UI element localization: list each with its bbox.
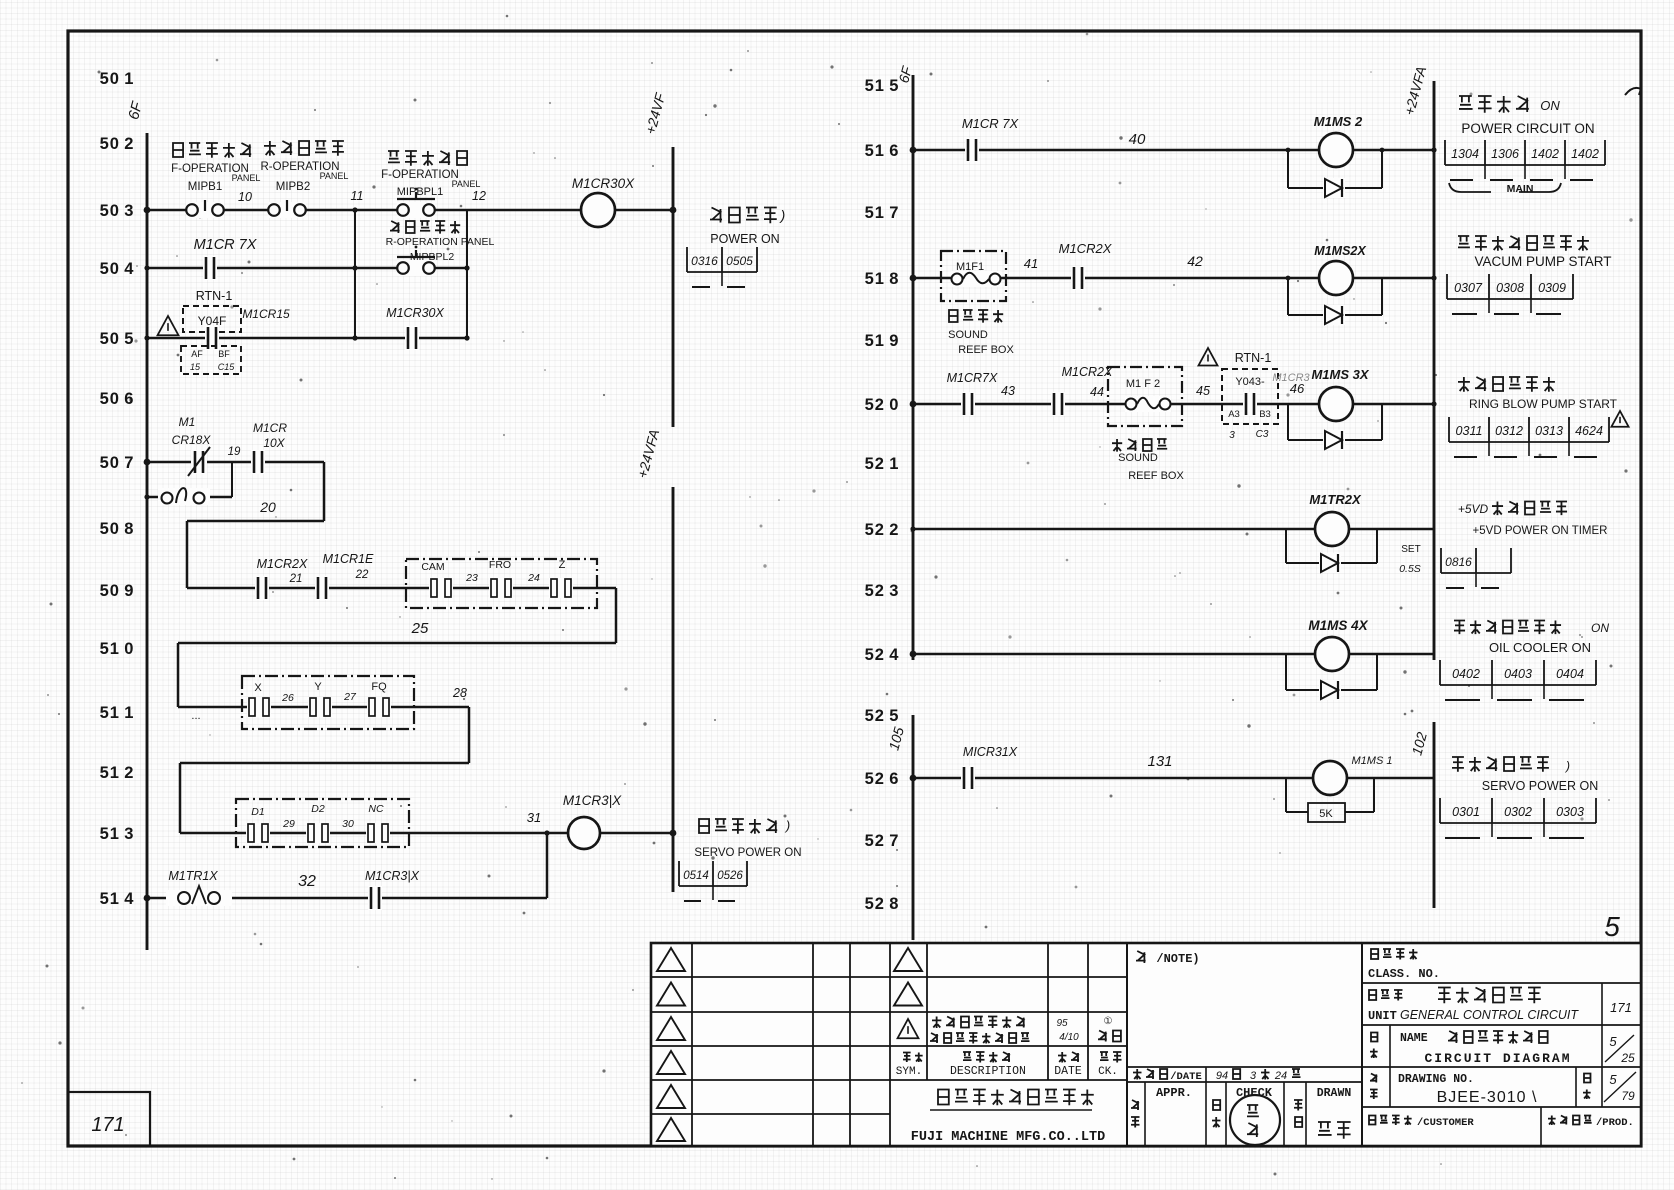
diode branch 520 <box>1288 404 1382 440</box>
svg-text:MIPB1: MIPB1 <box>188 181 223 193</box>
contact FRO <box>489 578 513 598</box>
svg-text:51 8: 51 8 <box>865 270 900 288</box>
right bus +24VF upper segment <box>672 147 675 427</box>
note kanji power-circuit ON <box>1459 96 1529 113</box>
label DRAWN <box>1294 1100 1303 1111</box>
svg-text:21: 21 <box>289 573 303 585</box>
wire coil to bus 503 <box>615 209 673 212</box>
svg-text:105: 105 <box>885 725 907 752</box>
svg-text:M1CR15: M1CR15 <box>242 307 290 321</box>
svg-text:0312: 0312 <box>1495 424 1523 438</box>
right-half left bus upper <box>912 75 915 660</box>
coil MICR31X <box>568 817 600 849</box>
contact NC-labelled <box>366 823 390 843</box>
svg-text:POWER CIRCUIT ON: POWER CIRCUIT ON <box>1461 121 1594 136</box>
svg-text:M1CR2X: M1CR2X <box>1059 241 1113 256</box>
wire down to 513 <box>179 763 182 833</box>
wire 526 coil-bus <box>1347 777 1434 780</box>
svg-text:0313: 0313 <box>1535 424 1563 438</box>
svg-text:20: 20 <box>259 499 276 515</box>
node 505 bus <box>144 335 149 340</box>
node 516 branch R <box>1380 148 1385 153</box>
svg-text:M1CR2X: M1CR2X <box>1062 365 1113 379</box>
svg-text:50 8: 50 8 <box>100 520 135 538</box>
svg-text:51 2: 51 2 <box>100 764 135 782</box>
contact MICR31X 526 <box>961 766 975 790</box>
svg-text:79: 79 <box>1621 1089 1635 1103</box>
wire rung 520 <box>913 403 1319 406</box>
svg-text:0526: 0526 <box>717 870 743 882</box>
svg-text:5: 5 <box>1609 1072 1617 1087</box>
wire rung 505 <box>147 337 467 340</box>
svg-text:171: 171 <box>1610 1000 1632 1015</box>
svg-text:DRAWING NO.: DRAWING NO. <box>1398 1073 1474 1086</box>
label page col <box>1584 1074 1590 1083</box>
svg-text:11: 11 <box>351 189 364 203</box>
svg-text:50 5: 50 5 <box>100 330 135 348</box>
left power bus 6F <box>146 133 149 950</box>
svg-text:M1CR1E: M1CR1E <box>323 552 374 566</box>
io table 0301 0302 0303 <box>1440 798 1596 838</box>
svg-text:1402: 1402 <box>1571 147 1599 161</box>
wire 522 coil-bus <box>1349 528 1434 531</box>
approval row dividers <box>1145 1082 1306 1146</box>
node 520 bus <box>910 401 917 408</box>
contact MICR1E <box>315 576 329 600</box>
diode branch 516 <box>1288 150 1382 188</box>
svg-text:28: 28 <box>452 686 467 700</box>
svg-text:102: 102 <box>1408 730 1430 757</box>
svg-text:SOUND: SOUND <box>948 329 988 341</box>
svg-text:15: 15 <box>190 362 201 372</box>
io table 1304 1306 1402 1402 <box>1445 140 1605 180</box>
svg-text:DESCRIPTION: DESCRIPTION <box>950 1065 1026 1078</box>
svg-text:B3: B3 <box>1259 409 1271 420</box>
svg-text:M1CR: M1CR <box>253 421 287 435</box>
svg-text:DRAWN: DRAWN <box>1317 1087 1352 1100</box>
svg-text:51 7: 51 7 <box>865 204 900 222</box>
right bus +24VFA lower segment <box>672 487 675 892</box>
svg-text:/DATE: /DATE <box>1170 1071 1202 1083</box>
wire rung 509 <box>187 587 616 590</box>
svg-text:+5VD POWER ON TIMER: +5VD POWER ON TIMER <box>1473 525 1608 537</box>
svg-text:0303: 0303 <box>1556 805 1584 819</box>
svg-text:Y04F: Y04F <box>198 314 227 328</box>
title block outline <box>651 943 1641 1146</box>
warning triangle 4624 <box>1611 411 1628 427</box>
svg-text:26: 26 <box>281 692 294 704</box>
wire 520 coil-bus <box>1353 403 1434 406</box>
svg-text:3: 3 <box>1250 1070 1257 1082</box>
svg-text:95: 95 <box>1056 1018 1068 1029</box>
wire rung 507 <box>147 461 324 464</box>
wire 518 coil-bus <box>1353 277 1434 280</box>
svg-text:RING BLOW PUMP START: RING BLOW PUMP START <box>1469 397 1618 411</box>
contact Z <box>549 578 573 598</box>
svg-text:25: 25 <box>411 620 429 637</box>
node 513 x547 <box>544 830 549 835</box>
svg-text:0302: 0302 <box>1504 805 1532 819</box>
svg-text:52 8: 52 8 <box>865 895 900 913</box>
svg-text:M1CR 7X: M1CR 7X <box>194 237 258 253</box>
wire 524 coil-bus <box>1349 653 1434 656</box>
diode 516 <box>1323 178 1345 198</box>
svg-text:0311: 0311 <box>1456 424 1483 438</box>
svg-text:0308: 0308 <box>1496 281 1524 295</box>
svg-text:52 7: 52 7 <box>865 832 900 850</box>
wire 507 down x324 <box>323 462 326 521</box>
node 518 right bus <box>1431 275 1436 280</box>
wire 516 coil-bus <box>1353 149 1434 152</box>
svg-text:VACUM PUMP START: VACUM PUMP START <box>1474 254 1611 269</box>
svg-text:+24VFA: +24VFA <box>1401 65 1429 117</box>
svg-text:CIRCUIT DIAGRAM: CIRCUIT DIAGRAM <box>1424 1051 1571 1066</box>
diode branch 522 <box>1286 529 1377 563</box>
svg-text:C3: C3 <box>1256 429 1269 440</box>
svg-text:F-OPERATION: F-OPERATION <box>381 169 459 181</box>
wire rung 513 <box>180 832 568 835</box>
pushbutton MIPBPL1 <box>397 188 435 218</box>
svg-text:Y043-: Y043- <box>1235 376 1265 388</box>
svg-text:0816: 0816 <box>1445 555 1472 569</box>
svg-text:43: 43 <box>1001 384 1015 398</box>
svg-text:50 7: 50 7 <box>100 454 135 472</box>
svg-text:M1MS 2: M1MS 2 <box>1314 114 1363 129</box>
company underline <box>930 1109 1092 1111</box>
label APPR <box>1131 1100 1139 1110</box>
diode 522 <box>1319 553 1341 573</box>
svg-text:/CUSTOMER: /CUSTOMER <box>1417 1117 1474 1129</box>
note kanji servo-power right <box>1452 757 1549 772</box>
svg-text:40: 40 <box>1129 131 1146 148</box>
svg-text:POWER ON: POWER ON <box>710 232 779 246</box>
svg-text:SET: SET <box>1401 544 1420 555</box>
svg-text:0316: 0316 <box>691 254 718 268</box>
right-half right bus upper <box>1433 81 1436 660</box>
check stamp yamamoto <box>1230 1095 1280 1145</box>
note kanji sound-reef-box 518 <box>949 310 1003 323</box>
node 522 bus <box>910 526 915 531</box>
svg-text:BJEE-3010 \: BJEE-3010 \ <box>1437 1089 1538 1106</box>
wire rung 503 <box>147 209 581 212</box>
svg-text:42: 42 <box>1187 253 1203 269</box>
svg-text:GENERAL CONTROL CIRCUIT: GENERAL CONTROL CIRCUIT <box>1400 1008 1579 1022</box>
svg-text:10: 10 <box>238 190 252 204</box>
right-half right bus lower 102 <box>1433 722 1436 908</box>
svg-text:Z: Z <box>559 559 566 571</box>
revision table grid <box>651 943 1127 1146</box>
coil M1MS2X <box>1319 261 1353 295</box>
svg-text:Y: Y <box>314 681 322 693</box>
pushbutton MIPBPL2 <box>397 246 435 276</box>
contact MICR30X 505 <box>405 326 419 350</box>
svg-text:0301: 0301 <box>1452 805 1480 819</box>
dash-dot box CAM FRO Z <box>406 559 597 608</box>
svg-text:): ) <box>1564 759 1570 773</box>
svg-text:MIPB2: MIPB2 <box>276 181 311 193</box>
svg-text:5K: 5K <box>1319 808 1333 820</box>
svg-text:4624: 4624 <box>1575 424 1603 438</box>
wire 20 horizontal <box>187 520 324 523</box>
coil M1MS3X <box>1319 387 1353 421</box>
svg-text:51 1: 51 1 <box>100 704 135 722</box>
svg-text:50 2: 50 2 <box>100 135 135 153</box>
svg-text:1402: 1402 <box>1531 147 1559 161</box>
svg-text:44: 44 <box>1090 385 1104 399</box>
svg-text:D2: D2 <box>311 803 325 815</box>
dash-dot box M1F1 <box>941 251 1006 301</box>
wire 513-514 vertical <box>546 833 549 898</box>
svg-text:C15: C15 <box>218 362 236 372</box>
svg-text:0309: 0309 <box>1538 281 1566 295</box>
wire rung 522 <box>913 528 1315 531</box>
label kanji F-operation panel front 2 <box>388 151 467 166</box>
diode 520 <box>1323 430 1345 450</box>
svg-text:D1: D1 <box>251 806 264 818</box>
corner mark top right <box>1625 88 1641 95</box>
svg-text:52 5: 52 5 <box>865 707 900 725</box>
svg-text:52 2: 52 2 <box>865 521 900 539</box>
pushbutton MIPB1 <box>186 200 224 218</box>
diode 518 <box>1323 305 1345 325</box>
svg-text:24: 24 <box>527 572 540 584</box>
svg-text:52 0: 52 0 <box>865 396 900 414</box>
svg-text:MICR31X: MICR31X <box>963 745 1018 759</box>
io table 0816 <box>1441 548 1511 588</box>
svg-text:ON: ON <box>1591 621 1609 635</box>
note kanji oil-cooler ON <box>1454 621 1561 635</box>
coil M1TR2X <box>1315 512 1349 546</box>
svg-text:23: 23 <box>465 572 478 584</box>
note kanji ring-blow-start <box>1458 377 1555 392</box>
svg-text:0404: 0404 <box>1556 667 1584 681</box>
MAIN bracket <box>1449 183 1561 192</box>
svg-text:45: 45 <box>1196 384 1210 398</box>
label kanji R-operation panel rear 1 <box>264 141 344 156</box>
node 505 x355 <box>352 335 357 340</box>
date row divider <box>1205 1067 1207 1082</box>
diode 524 <box>1319 680 1341 700</box>
node 518 branch L <box>1286 276 1291 281</box>
svg-text:31: 31 <box>527 810 541 825</box>
contact CAM <box>429 578 453 598</box>
svg-text:32: 32 <box>298 873 316 890</box>
svg-text:MIPBPL1: MIPBPL1 <box>397 186 443 198</box>
svg-text:PANEL: PANEL <box>232 173 261 183</box>
svg-text:52 3: 52 3 <box>865 582 900 600</box>
wire down to 509 <box>186 521 189 588</box>
svg-text:50 1: 50 1 <box>100 70 135 88</box>
svg-text:50 6: 50 6 <box>100 390 135 408</box>
svg-text:27: 27 <box>343 691 357 703</box>
svg-text:/NOTE): /NOTE) <box>1156 952 1199 966</box>
node 513 bus <box>670 830 677 837</box>
node 514 bus <box>144 895 151 902</box>
svg-text:SOUND: SOUND <box>1118 452 1158 464</box>
svg-text:BF: BF <box>218 349 230 359</box>
label kanji R-operation panel rear 2 <box>390 221 460 234</box>
wire branch 503-505 right <box>466 210 468 338</box>
node rung503-bus <box>144 207 151 214</box>
io table 0307 0308 0309 <box>1447 274 1573 314</box>
label NAME col <box>1371 1033 1377 1042</box>
svg-text:50 9: 50 9 <box>100 582 135 600</box>
node 504 bus <box>144 265 149 270</box>
wire branch 503-505 left <box>354 210 356 338</box>
revision row3 description <box>932 1017 1025 1029</box>
node 526 bus <box>910 775 917 782</box>
dash-dot box X Y FQ <box>242 676 414 729</box>
svg-text:12: 12 <box>472 189 486 203</box>
title section grid <box>1362 943 1641 1146</box>
svg-text:): ) <box>779 207 786 223</box>
node 516 right bus <box>1431 147 1436 152</box>
svg-text:M1TR1X: M1TR1X <box>168 869 218 883</box>
svg-text:22: 22 <box>355 569 369 581</box>
note kanji servo-power-on <box>699 819 777 834</box>
svg-text:FUJI MACHINE MFG.CO..LTD: FUJI MACHINE MFG.CO..LTD <box>911 1130 1105 1145</box>
svg-text:30: 30 <box>342 818 354 830</box>
svg-text:52 6: 52 6 <box>865 770 900 788</box>
svg-text:51 9: 51 9 <box>865 332 900 350</box>
pushbutton MIPB2 <box>268 200 306 218</box>
revision header DATE <box>1058 1052 1079 1063</box>
node 505 x467 <box>464 335 469 340</box>
svg-text:19: 19 <box>228 446 241 458</box>
svg-text:4/10: 4/10 <box>1059 1032 1079 1043</box>
svg-text:CAM: CAM <box>421 561 444 573</box>
label CHECK <box>1213 1100 1220 1110</box>
note box label <box>1136 951 1146 963</box>
node 524 bus <box>910 651 917 658</box>
io table 0514 0526 <box>679 861 747 901</box>
wire rung 514 <box>147 897 547 900</box>
node 518 bus <box>910 275 917 282</box>
svg-text:①: ① <box>1104 1016 1113 1027</box>
svg-text:0307: 0307 <box>1454 281 1483 295</box>
contact MICR7X 520 <box>961 392 975 416</box>
svg-text:SERVO POWER ON: SERVO POWER ON <box>1482 779 1598 793</box>
node 507b bus <box>144 494 149 499</box>
sheet code box 171 bottom-left <box>68 1092 150 1146</box>
warning triangle RTN-1 520 <box>1199 348 1218 366</box>
label CLASS NO <box>1371 949 1418 960</box>
contact MICR2X 520 <box>1051 392 1065 416</box>
svg-text:CR18X: CR18X <box>172 433 212 447</box>
wire 512 horizontal <box>180 762 469 765</box>
svg-text:...: ... <box>191 710 200 722</box>
wire 507 branch up <box>231 462 233 497</box>
svg-text:0505: 0505 <box>726 254 753 268</box>
svg-text:+5VD: +5VD <box>1458 502 1489 516</box>
svg-text:0403: 0403 <box>1504 667 1532 681</box>
contact Y <box>308 697 332 717</box>
svg-text:171: 171 <box>91 1114 124 1136</box>
svg-text:PANEL: PANEL <box>320 171 349 181</box>
svg-text:52 4: 52 4 <box>865 646 900 664</box>
contact MICR15 <box>205 326 219 350</box>
wire rung 511 <box>178 706 469 709</box>
node 504 x467 <box>464 265 469 270</box>
contact D1 <box>246 823 270 843</box>
svg-text:10X: 10X <box>263 436 285 450</box>
wire rung 524 <box>913 653 1315 656</box>
label DRAWING col <box>1370 1074 1377 1083</box>
contact MICR7X 516 <box>965 138 979 162</box>
io table 0311 0312 0313 4624 <box>1449 417 1609 457</box>
svg-text:RTN-1: RTN-1 <box>196 289 233 303</box>
svg-text:AF: AF <box>191 349 203 359</box>
svg-text:+24VFA: +24VFA <box>634 428 662 480</box>
svg-text:51 6: 51 6 <box>865 142 900 160</box>
svg-text:MAIN: MAIN <box>1507 183 1534 195</box>
svg-text:0.5S: 0.5S <box>1399 563 1421 575</box>
svg-text:M1CR30X: M1CR30X <box>572 176 635 191</box>
dashed box Y04F <box>183 306 241 332</box>
svg-text:M1CR 7X: M1CR 7X <box>962 116 1020 131</box>
svg-text:131: 131 <box>1147 753 1172 770</box>
svg-text:SYM.: SYM. <box>896 1066 922 1078</box>
svg-text:52 1: 52 1 <box>865 455 900 473</box>
svg-text:M1MS 1: M1MS 1 <box>1352 755 1393 767</box>
revision header CK <box>1100 1052 1122 1063</box>
node 504 x355 <box>352 265 357 270</box>
svg-text:50 4: 50 4 <box>100 260 135 278</box>
label kanji F-operation panel front 1 <box>173 143 251 158</box>
svg-text:CK.: CK. <box>1098 1066 1118 1078</box>
wire 513 to bus <box>600 832 673 835</box>
node 516 branch L <box>1286 148 1291 153</box>
right-half left bus lower 105 <box>912 715 915 940</box>
svg-text:M1: M1 <box>179 415 196 429</box>
svg-text:51 3: 51 3 <box>100 825 135 843</box>
timer contact M1TR1X <box>166 886 232 906</box>
svg-text:APPR.: APPR. <box>1156 1086 1192 1100</box>
svg-text:25: 25 <box>1620 1051 1635 1065</box>
svg-text:1306: 1306 <box>1491 147 1519 161</box>
wire rung 518 <box>913 277 1319 280</box>
svg-text:CLASS. NO.: CLASS. NO. <box>1368 967 1440 981</box>
contact FQ <box>367 697 391 717</box>
svg-text:M1CR3|X: M1CR3|X <box>563 793 622 808</box>
revision header DESCRIPTION <box>963 1052 1010 1063</box>
note kanji power-on <box>710 208 777 224</box>
svg-text:+24VF: +24VF <box>642 90 669 136</box>
contact NC M1CR18X <box>188 447 210 476</box>
date row label <box>1133 1069 1167 1080</box>
wire 511 down x469 <box>468 707 471 763</box>
svg-text:29: 29 <box>282 818 295 830</box>
label PROD <box>1548 1116 1592 1125</box>
svg-text:1304: 1304 <box>1451 147 1479 161</box>
svg-text:DATE: DATE <box>1054 1065 1082 1078</box>
svg-text:51 0: 51 0 <box>100 640 135 658</box>
company name kanji <box>938 1090 1094 1106</box>
date row line bottom <box>1127 1081 1362 1083</box>
diode branch 524 <box>1286 654 1377 690</box>
note kanji vacuum-pump-start <box>1458 236 1589 251</box>
revision header SYM <box>903 1053 923 1062</box>
svg-text:M1CR30X: M1CR30X <box>386 306 444 320</box>
contact MICR7X <box>203 256 217 280</box>
wire 25 horizontal <box>178 642 616 645</box>
svg-text:5: 5 <box>1604 911 1620 942</box>
svg-text:REEF BOX: REEF BOX <box>958 344 1014 356</box>
contact MICR10X <box>251 450 265 474</box>
svg-text:OIL COOLER ON: OIL COOLER ON <box>1489 640 1591 655</box>
dash-dot box M1F2 <box>1108 367 1182 426</box>
coil MICR30X <box>581 193 615 227</box>
